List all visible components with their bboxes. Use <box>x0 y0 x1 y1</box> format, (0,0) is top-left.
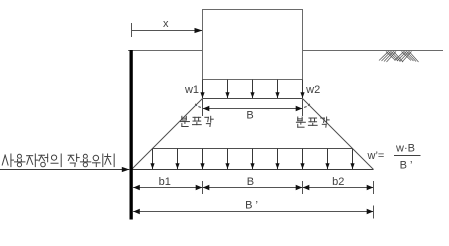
footing load arrow 1 <box>202 80 204 99</box>
ground line left <box>128 50 203 52</box>
svg-text:w·B: w·B <box>395 143 415 155</box>
leader line to action position <box>0 169 129 171</box>
base load arrow 2 <box>177 149 179 170</box>
svg-text:B ’: B ’ <box>245 199 258 211</box>
right distribution angle arc <box>303 104 310 108</box>
base load arrow 6 <box>277 149 279 170</box>
svg-text:b1: b1 <box>159 176 171 188</box>
thick vertical bar (wall) <box>130 50 133 220</box>
label bunpogak right <box>296 117 329 127</box>
dimension ticks b1/B/b2 <box>202 181 204 194</box>
base load arrow 3 <box>202 149 204 170</box>
footing load arrow 5 <box>302 80 304 99</box>
dimension line B <box>203 187 303 189</box>
footing load arrow 3 <box>252 80 254 99</box>
dimension line b2 <box>303 187 374 189</box>
base load tail line <box>153 148 353 150</box>
svg-text:B: B <box>247 176 254 188</box>
dimension line b1 <box>133 187 202 189</box>
B dimension (upper) <box>203 108 303 110</box>
base load arrow 4 <box>227 149 229 170</box>
extension line right corner <box>302 99 304 117</box>
footing load arrow 2 <box>227 80 229 99</box>
trapezoid left slope <box>132 99 203 170</box>
trapezoid base line <box>132 169 374 171</box>
label bunpogak left <box>181 116 214 126</box>
svg-text:w’=: w’= <box>367 150 385 162</box>
dimension tick B' right <box>373 206 375 219</box>
base load arrow 7 <box>302 149 304 170</box>
formula fraction bar <box>394 155 421 157</box>
trapezoid right slope <box>303 99 374 170</box>
ground line right <box>303 50 444 52</box>
extension line left corner <box>202 99 204 117</box>
x dimension start tick <box>131 23 133 37</box>
label user-defined action position <box>2 154 114 167</box>
svg-text:B: B <box>246 109 253 121</box>
footing load arrow 4 <box>277 80 279 99</box>
base load arrow 8 <box>327 149 329 170</box>
base load arrow 5 <box>252 149 254 170</box>
svg-text:w2: w2 <box>305 84 320 96</box>
footing rectangle <box>203 10 303 80</box>
left distribution angle arc <box>195 104 202 108</box>
svg-text:w1: w1 <box>184 84 199 96</box>
base load arrow 9 <box>352 149 354 170</box>
base load arrow 1 <box>152 149 154 170</box>
ground hatch symbol <box>379 51 419 62</box>
svg-text:x: x <box>163 18 169 30</box>
dimension line B' <box>133 211 373 213</box>
trapezoid top edge <box>203 98 303 100</box>
x dimension arrow <box>132 30 203 32</box>
svg-text:B ’: B ’ <box>400 160 413 172</box>
svg-text:b2: b2 <box>332 176 344 188</box>
